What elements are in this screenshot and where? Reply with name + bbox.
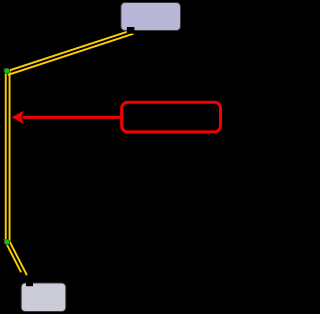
wire pair segment C (junction 2 to bottom box port) bbox=[6, 241, 27, 275]
annotation box (red rounded rectangle) bbox=[122, 102, 221, 132]
wire pair segment A (junction 1 to top box port) bbox=[7, 31, 134, 75]
junction node 2 (green dot) bbox=[4, 239, 9, 244]
wire pair segment B (vertical, junction 1 to junction 2) bbox=[6, 71, 10, 243]
junction node 1 (green dot) bbox=[4, 68, 9, 73]
port square on top box bbox=[127, 27, 135, 34]
green tick at junction 2 bbox=[4, 239, 5, 240]
node box top (device 1) bbox=[121, 3, 181, 31]
green tick at junction 1 bbox=[4, 69, 5, 70]
arrow shaft (red) bbox=[23, 116, 123, 119]
node box bottom (device 2) bbox=[21, 283, 66, 312]
arrowhead (red, pointing left at wires) bbox=[12, 111, 24, 124]
port square on bottom box bbox=[26, 281, 33, 286]
